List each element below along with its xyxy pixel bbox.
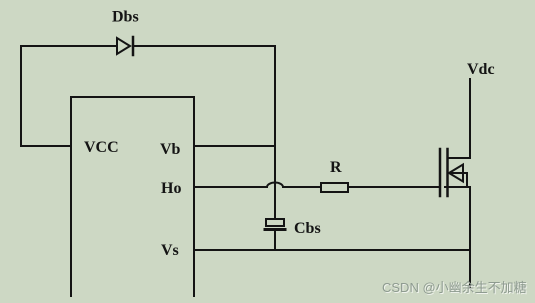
wire: Cbs bottom to Vs rail <box>274 231 276 250</box>
svg-text:R: R <box>330 159 342 176</box>
wire: bootstrap vertical node down to Cbs <box>274 46 276 219</box>
wire: left vertical drop <box>20 46 22 146</box>
watermark <box>382 280 528 296</box>
transistor Q1 (N-MOSFET) <box>440 149 470 196</box>
VCC driver box U1 <box>71 97 194 296</box>
wire: Vb pin to bootstrap node <box>194 145 275 147</box>
wire: Ho pin with hop over bootstrap node <box>194 183 321 188</box>
diode Dbs <box>117 37 133 55</box>
wire: Vs rail <box>194 249 470 251</box>
svg-text:Cbs: Cbs <box>294 220 321 237</box>
wire: top bootstrap rail left of diode <box>21 45 117 47</box>
wire: stub into VCC box left <box>21 145 71 147</box>
capacitor Cbs <box>265 219 285 230</box>
svg-text:Vdc: Vdc <box>467 61 495 78</box>
wire: Ho to gate after resistor <box>348 186 439 188</box>
svg-text:Vb: Vb <box>160 141 181 158</box>
svg-text:VCC: VCC <box>84 139 119 156</box>
resistor R <box>321 183 348 192</box>
wire: top bootstrap rail right of diode <box>133 45 275 47</box>
svg-text:CSDN @小幽余生不加糖: CSDN @小幽余生不加糖 <box>382 280 527 295</box>
wire: source vertical down <box>469 187 471 287</box>
svg-text:Vs: Vs <box>161 242 179 259</box>
wire: Vdc drain vertical <box>469 79 471 158</box>
svg-text:Dbs: Dbs <box>112 9 139 26</box>
svg-text:Ho: Ho <box>161 180 181 197</box>
